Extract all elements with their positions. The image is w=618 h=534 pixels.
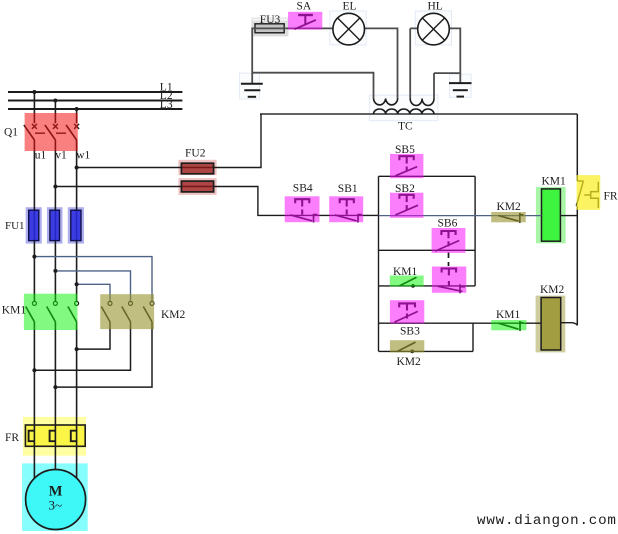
svg-text:KM2: KM2	[540, 284, 565, 296]
svg-text:v1: v1	[55, 150, 67, 162]
svg-text:FU2: FU2	[185, 148, 206, 160]
svg-text:KM1: KM1	[542, 176, 567, 188]
svg-text:KM1: KM1	[2, 305, 27, 317]
svg-text:HL: HL	[428, 1, 443, 13]
svg-text:SA: SA	[297, 1, 312, 13]
svg-text:SB6: SB6	[438, 218, 458, 230]
svg-text:L3: L3	[160, 99, 173, 111]
svg-text:SB5: SB5	[395, 144, 415, 156]
svg-text:www.diangon.com: www.diangon.com	[477, 513, 617, 529]
svg-text:FR: FR	[604, 190, 618, 202]
svg-text:FR: FR	[5, 432, 19, 444]
svg-text:Q1: Q1	[4, 127, 18, 139]
svg-text:u1: u1	[35, 150, 47, 162]
svg-text:SB4: SB4	[293, 183, 313, 195]
svg-text:KM2: KM2	[497, 201, 522, 213]
svg-text:3~: 3~	[49, 498, 63, 513]
svg-text:KM2: KM2	[161, 309, 186, 321]
svg-text:SB3: SB3	[400, 325, 420, 337]
svg-text:EL: EL	[343, 1, 357, 13]
svg-text:SB2: SB2	[395, 183, 415, 195]
svg-text:FU3: FU3	[260, 14, 281, 26]
svg-text:TC: TC	[398, 121, 413, 133]
svg-text:FU1: FU1	[5, 220, 25, 232]
svg-text:SB1: SB1	[338, 183, 358, 195]
svg-text:KM2: KM2	[397, 356, 422, 368]
svg-text:w1: w1	[76, 150, 90, 162]
svg-text:KM1: KM1	[496, 309, 521, 321]
svg-text:KM1: KM1	[393, 266, 418, 278]
